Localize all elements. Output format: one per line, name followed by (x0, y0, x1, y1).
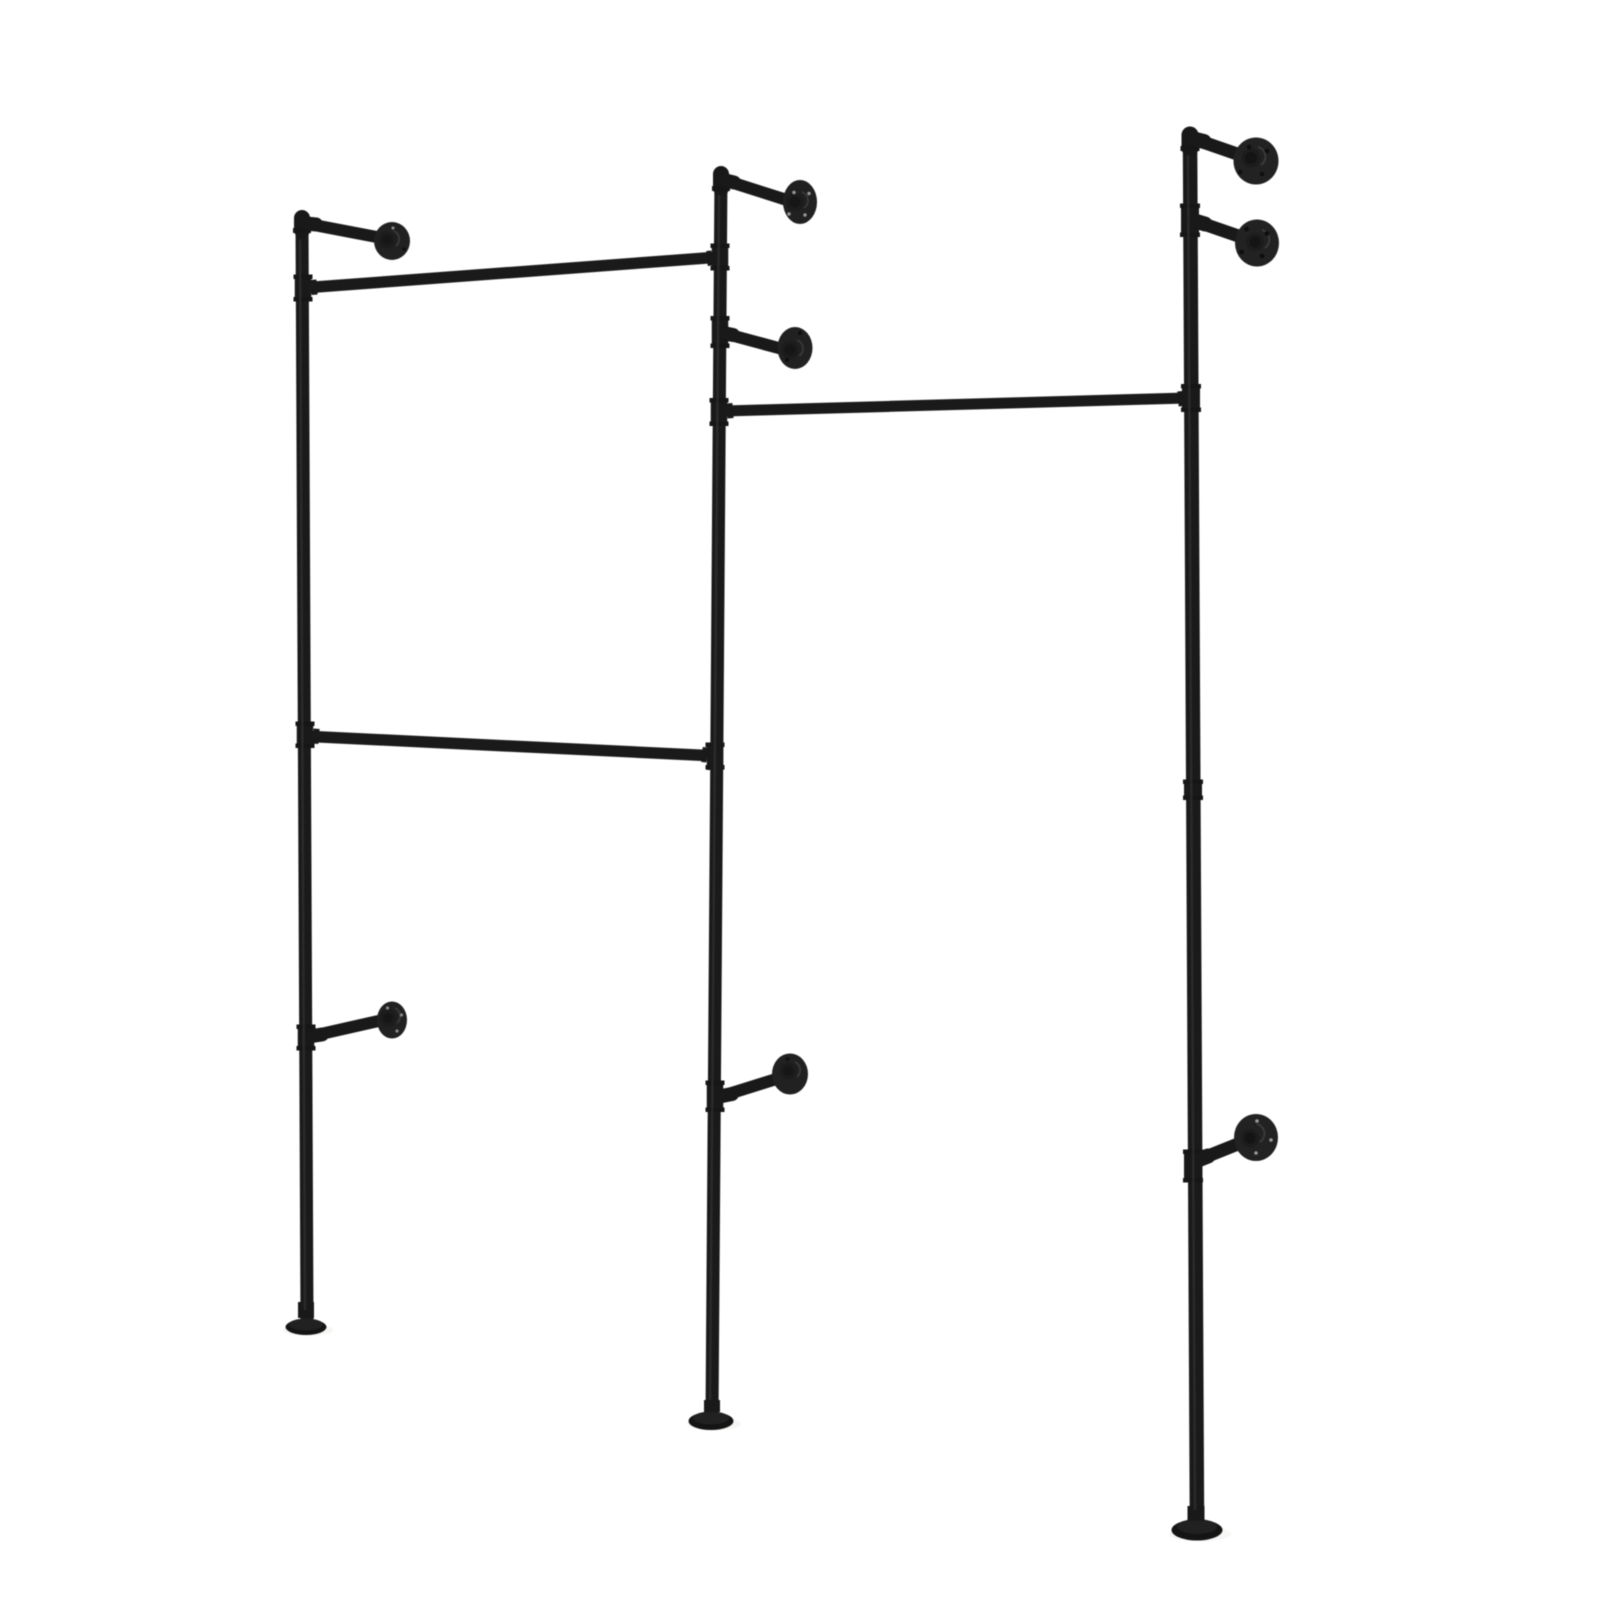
middle top wall flange F3 (783, 180, 817, 224)
right mid arm A7 (1195, 221, 1250, 240)
middle floor flange base BF2 (687, 1400, 741, 1431)
tee TR3 (right pipe, bottom arm) (1184, 1150, 1202, 1183)
left top wall flange F1 (374, 222, 410, 260)
right mid wall flange F7 (1235, 220, 1279, 267)
left lower arm A2 (312, 1020, 385, 1037)
left lower wall flange F2 (377, 1002, 407, 1039)
tee T3m (middle pipe, lower bar) (719, 398, 733, 426)
right top arm A6 (1194, 139, 1243, 156)
tee T2m (middle pipe, mid arm) (712, 316, 729, 348)
middle mid arm A4 (723, 333, 786, 350)
left top arm A1 (306, 224, 382, 239)
right vertical pipe P3 (1190, 136, 1197, 1526)
tee T1m (middle pipe, top bar) (707, 244, 720, 271)
right top elbow E3 (1182, 135, 1199, 151)
gloss highlights on pipes (300, 155, 1195, 1510)
left top elbow E1 (294, 218, 310, 233)
right bottom wall flange F8 (1234, 1114, 1278, 1161)
middle bottom wall flange F5 (772, 1054, 808, 1095)
tee T3 (left pipe, lower arm) (298, 1025, 315, 1051)
left floor flange base BF1 (283, 1302, 333, 1336)
coupling CR (right pipe) (1184, 780, 1202, 801)
lower hang bar B2 (725, 398, 1187, 411)
left vertical pipe P1 (302, 222, 307, 1320)
right bottom arm A8 (1198, 1140, 1248, 1160)
right floor flange base BF3 (1169, 1506, 1231, 1542)
tee T5m (middle pipe, middle bar) (702, 743, 715, 771)
tee TR2 (right pipe, lower bar) (1178, 384, 1191, 412)
middle top elbow E2 (713, 174, 729, 191)
tee T1 (left pipe, top bar) (303, 275, 317, 302)
middle hang bar B3 (311, 737, 707, 756)
middle bottom arm A5 (722, 1076, 786, 1096)
tee T4m (middle pipe, bottom arm) (707, 1081, 724, 1113)
middle vertical pipe P2 (712, 175, 721, 1416)
middle top arm A3 (724, 180, 790, 201)
middle mid wall flange F4 (778, 327, 813, 369)
right top wall flange F6 (1234, 138, 1279, 185)
tee T2 (left pipe, middle bar) (305, 722, 319, 749)
top hang bar B1 (309, 258, 713, 288)
tee TR1 (right pipe, mid arm) (1181, 204, 1199, 238)
